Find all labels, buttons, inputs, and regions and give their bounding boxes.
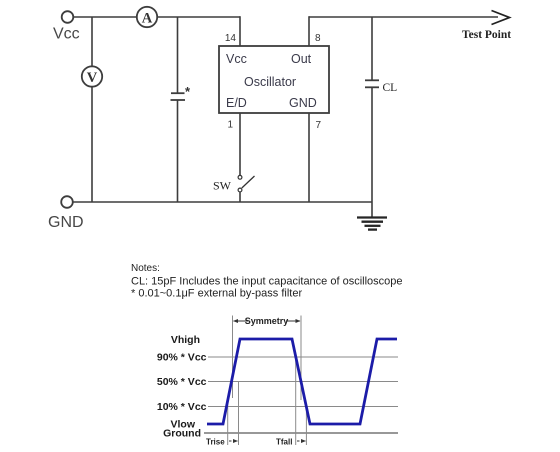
- svg-text:Out: Out: [291, 52, 312, 66]
- svg-text:Symmetry: Symmetry: [245, 316, 289, 326]
- svg-text:CL: CL: [383, 82, 398, 94]
- wire CL branch bottom: [371, 87, 373, 216]
- pin 14 wire: [239, 16, 241, 46]
- svg-text:CL: 15pF Includes the input ca: CL: 15pF Includes the input capacitance …: [131, 276, 403, 288]
- trise arrow: [229, 439, 238, 443]
- svg-text:50% * Vcc: 50% * Vcc: [157, 376, 207, 388]
- voltmeter V: [82, 66, 102, 86]
- waveform trace: [207, 339, 397, 424]
- symmetry arrow: [233, 319, 301, 323]
- notes text: [131, 263, 403, 300]
- svg-text:GND: GND: [289, 96, 317, 110]
- wire left branch: [91, 17, 93, 202]
- svg-text:*: *: [185, 84, 191, 99]
- svg-text:A: A: [142, 11, 153, 27]
- svg-text:GND: GND: [48, 214, 84, 231]
- svg-text:Trise: Trise: [206, 438, 225, 447]
- symmetry tick left: [232, 316, 234, 399]
- pin 7 wire: [308, 113, 310, 202]
- svg-text:Tfall: Tfall: [276, 438, 292, 447]
- wire capacitor* branch top: [177, 17, 179, 93]
- wire switch bottom stub: [239, 192, 241, 203]
- wire capacitor* branch bottom: [177, 100, 179, 202]
- tfall tick right: [305, 407, 307, 446]
- pin 1 wire: [239, 113, 241, 175]
- waveform gridline 90%: [208, 356, 398, 358]
- svg-text:Ground: Ground: [163, 428, 201, 440]
- waveform ground axis: [204, 432, 398, 434]
- tfall tick left: [295, 357, 297, 445]
- ammeter A: [137, 7, 157, 27]
- test point arrow: [492, 11, 510, 25]
- trise tick right: [238, 382, 240, 446]
- svg-text:SW: SW: [213, 179, 232, 193]
- wire CL branch top: [371, 17, 373, 80]
- svg-text:Vhigh: Vhigh: [171, 334, 200, 346]
- symmetry tick right: [300, 316, 302, 401]
- capacitor CL: [365, 80, 379, 87]
- svg-text:90% * Vcc: 90% * Vcc: [157, 352, 207, 364]
- waveform gridline 10%: [208, 406, 398, 408]
- switch SW: [238, 175, 254, 192]
- svg-text:7: 7: [316, 120, 322, 131]
- svg-text:Oscillator: Oscillator: [244, 75, 296, 89]
- svg-text:V: V: [87, 70, 98, 86]
- svg-text:Vcc: Vcc: [226, 52, 247, 66]
- pin 8 wire: [308, 16, 310, 46]
- waveform gridline 50%: [208, 381, 398, 383]
- svg-text:E/D: E/D: [226, 96, 247, 110]
- svg-text:10% * Vcc: 10% * Vcc: [157, 401, 207, 413]
- trise tick left: [227, 400, 229, 445]
- svg-text:14: 14: [225, 33, 237, 44]
- tfall arrow: [297, 439, 306, 443]
- svg-text:Test Point: Test Point: [462, 29, 511, 41]
- terminal GND: [61, 196, 73, 208]
- wire top rail right: [309, 16, 498, 18]
- oscillator U1: [219, 46, 329, 113]
- svg-text:1: 1: [227, 120, 233, 131]
- wire top rail left: [74, 16, 241, 18]
- capacitor C*: [171, 93, 186, 100]
- wire bottom rail: [73, 201, 372, 203]
- svg-text:* 0.01~0.1μF external by-pass: * 0.01~0.1μF external by-pass filter: [131, 288, 302, 300]
- terminal Vcc: [62, 11, 74, 23]
- svg-text:8: 8: [315, 33, 321, 44]
- svg-text:Vcc: Vcc: [53, 26, 80, 43]
- svg-text:Notes:: Notes:: [131, 263, 160, 274]
- ground symbol: [357, 218, 387, 230]
